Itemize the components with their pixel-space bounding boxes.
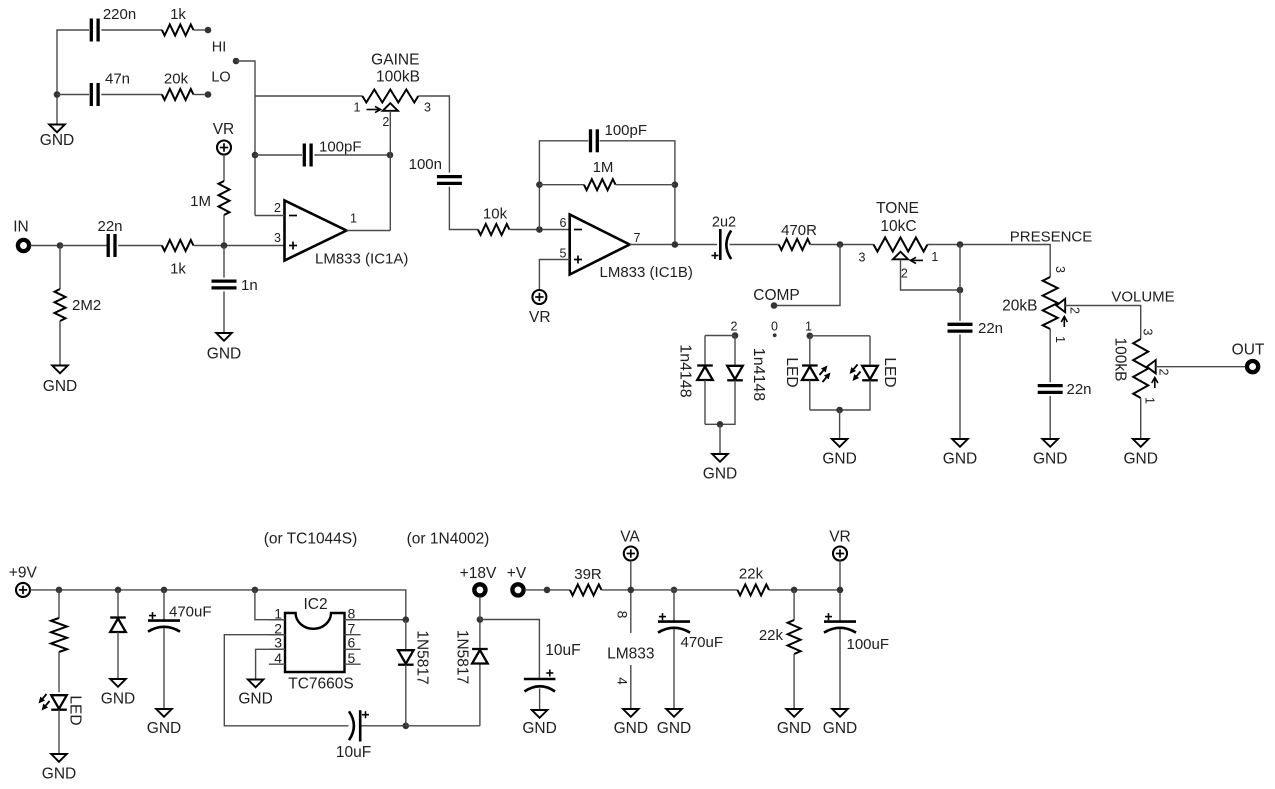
pin 2: [1157, 369, 1171, 376]
pin 3: [1053, 266, 1067, 273]
wire: [1049, 329, 1051, 382]
svg-text:10k: 10k: [483, 206, 508, 223]
pin 3: [1141, 329, 1155, 336]
svg-text:5: 5: [348, 650, 356, 666]
svg-text:1k: 1k: [170, 261, 186, 278]
label 20kB: [1002, 298, 1037, 315]
pin 8: [615, 611, 631, 619]
svg-text:IN: IN: [13, 219, 29, 236]
wire: [839, 410, 841, 439]
wire: [101, 94, 162, 96]
label LED: [881, 357, 898, 387]
wiper TONE: [893, 252, 923, 264]
ground: [1033, 439, 1067, 468]
wire: [959, 335, 961, 439]
label 100kB: [1112, 338, 1129, 382]
svg-text:470uF: 470uF: [681, 634, 724, 651]
wire: [58, 590, 60, 618]
potentiometer GAINE 100kB: [362, 90, 418, 103]
wire: [255, 154, 302, 156]
capacitor 22n: [948, 320, 1004, 337]
junction: [403, 616, 410, 623]
wire: [223, 246, 225, 278]
svg-text:GND: GND: [42, 766, 76, 783]
svg-text:4: 4: [274, 650, 282, 666]
svg-text:5: 5: [560, 247, 567, 261]
svg-text:+9V: +9V: [9, 565, 38, 582]
svg-text:2: 2: [1157, 369, 1171, 376]
svg-text:VOLUME: VOLUME: [1111, 289, 1174, 306]
diode reverse protection: [110, 618, 126, 633]
op-amp U1 LM833 IC1B: [560, 215, 693, 282]
wire: [480, 620, 540, 680]
resistor 470R: [779, 222, 817, 250]
ground: [238, 680, 272, 708]
capacitor 100uF: [824, 613, 889, 653]
wire: [389, 111, 391, 231]
label OUT: [1232, 342, 1265, 359]
wire: [314, 154, 390, 156]
wire: [769, 589, 840, 591]
wire pin 2: [224, 635, 348, 726]
wire: [839, 629, 841, 709]
wire: [255, 95, 362, 97]
junction: [717, 421, 724, 428]
junction: [54, 91, 61, 98]
svg-text:3: 3: [274, 635, 282, 651]
label VR: [829, 529, 851, 546]
svg-text:IC2: IC2: [303, 596, 327, 613]
pin 4: [615, 677, 631, 685]
svg-text:20k: 20k: [164, 71, 189, 88]
pin 1: [1053, 336, 1067, 343]
wire: [223, 215, 225, 246]
svg-text:1n: 1n: [241, 277, 258, 294]
ground: [1123, 439, 1157, 468]
svg-text:GND: GND: [207, 346, 241, 363]
wire: [30, 245, 60, 247]
wire: [101, 29, 162, 31]
svg-text:2: 2: [901, 267, 908, 281]
svg-text:GND: GND: [43, 378, 77, 395]
terminal VR: [217, 141, 231, 155]
label +V: [507, 565, 527, 582]
svg-text:GND: GND: [101, 691, 135, 708]
svg-text:HI: HI: [212, 40, 227, 56]
wire: [236, 61, 255, 216]
svg-text:+18V: +18V: [460, 565, 497, 582]
wire: [163, 590, 165, 621]
svg-text:1: 1: [805, 320, 812, 334]
capacitor 2u2: [712, 215, 737, 261]
wire: [118, 245, 162, 247]
svg-text:LM833 (IC1B): LM833 (IC1B): [600, 264, 693, 281]
pin 6: [348, 635, 356, 651]
wire: [809, 336, 811, 365]
diode 1N5817: [472, 649, 488, 664]
resistor 1M: [584, 159, 616, 190]
capacitor 470uF: [148, 604, 212, 632]
svg-text:1n4148: 1n4148: [677, 344, 694, 397]
jack +18V: [474, 584, 485, 595]
label 2: [731, 320, 738, 334]
svg-text:GND: GND: [238, 691, 272, 708]
wire pin5: [539, 260, 569, 291]
node COMP: [771, 302, 778, 309]
svg-text:100pF: 100pF: [605, 122, 648, 139]
wire: [194, 94, 209, 96]
svg-text:22n: 22n: [978, 320, 1003, 337]
wire: [479, 664, 481, 726]
label VR: [529, 309, 551, 326]
wire: [616, 184, 675, 186]
wire: [58, 652, 60, 692]
node diode select 1: [807, 333, 814, 340]
wire: [194, 245, 285, 247]
diode D1 1n4148: [697, 366, 713, 381]
svg-text:22n: 22n: [1067, 381, 1092, 398]
resistor 10k: [478, 206, 510, 236]
svg-text:470uF: 470uF: [169, 604, 212, 621]
diode 1N5817: [398, 650, 414, 665]
wire: [1049, 396, 1051, 439]
svg-text:VR: VR: [213, 121, 235, 138]
pin 8: [348, 606, 356, 622]
svg-text:22n: 22n: [97, 218, 122, 235]
svg-text:4: 4: [615, 677, 631, 685]
wire: [673, 590, 675, 622]
junction: [836, 407, 843, 414]
svg-text:VR: VR: [529, 309, 551, 326]
wire: [959, 245, 961, 321]
wire pin2: [255, 215, 285, 217]
ground: [40, 125, 74, 150]
node LO terminal: [205, 91, 212, 98]
svg-text:GAINE: GAINE: [371, 52, 419, 69]
svg-text:1: 1: [350, 212, 357, 226]
wire: [539, 184, 584, 186]
LED arrows: [820, 366, 831, 382]
wire: [479, 620, 481, 649]
svg-text:2: 2: [731, 320, 738, 334]
ground: [614, 709, 648, 737]
ground: [101, 679, 135, 708]
wire: [630, 244, 717, 246]
capacitor 47n: [91, 71, 130, 107]
wire: [60, 245, 108, 247]
wire: [810, 335, 870, 337]
capacitor 1n: [212, 277, 258, 294]
LED D4: [862, 366, 878, 381]
svg-text:100kB: 100kB: [1112, 338, 1129, 382]
svg-text:GND: GND: [703, 466, 737, 483]
wire wiper: [901, 259, 961, 290]
svg-text:GND: GND: [823, 720, 857, 737]
label TONE: [876, 200, 919, 217]
wire: [405, 665, 407, 726]
pin 1: [1143, 397, 1157, 404]
label 1N5817: [414, 630, 431, 684]
node IC1A non-inverting input: [221, 242, 228, 249]
wire: [734, 336, 736, 365]
wire: [630, 665, 632, 709]
svg-text:OUT: OUT: [1232, 342, 1265, 359]
svg-text:0: 0: [771, 320, 778, 334]
svg-text:1M: 1M: [593, 159, 614, 176]
svg-text:8: 8: [615, 611, 631, 619]
capacitor 100pF: [591, 122, 648, 152]
svg-text:LM833 (IC1A): LM833 (IC1A): [315, 251, 408, 268]
wire: [58, 710, 60, 754]
svg-text:1: 1: [1053, 336, 1067, 343]
resistor LED: [51, 618, 67, 652]
wire: [705, 335, 735, 337]
label 1n4148: [677, 344, 694, 397]
label LO: [211, 70, 230, 86]
wire: [869, 336, 871, 365]
wire: [602, 589, 659, 591]
svg-text:LM833: LM833: [607, 646, 654, 663]
ground: [207, 333, 241, 363]
svg-text:20kB: 20kB: [1002, 298, 1037, 315]
IC2 pin stubs: [269, 620, 361, 665]
potentiometer TONE 10kC: [874, 238, 928, 252]
jack +V: [512, 584, 523, 595]
terminal VR: [532, 290, 546, 304]
svg-text:GND: GND: [147, 720, 181, 737]
wire: [719, 424, 721, 453]
svg-text:7: 7: [634, 231, 641, 245]
svg-text:100n: 100n: [409, 156, 442, 173]
node IC1B inverting input: [536, 226, 543, 233]
junction: [791, 587, 798, 594]
wire: [57, 94, 89, 96]
capacitor 470uF: [658, 613, 723, 651]
junction: [57, 242, 64, 249]
pin 1: [931, 250, 938, 264]
capacitor 22n: [1038, 381, 1092, 398]
wire: [793, 590, 795, 620]
svg-text:3: 3: [1141, 329, 1155, 336]
wire: [658, 589, 738, 591]
wire: [405, 620, 407, 650]
wire: [223, 291, 225, 332]
capacitor 100pF: [304, 139, 361, 167]
label GAINE: [371, 52, 419, 69]
wire wiper: [1065, 306, 1141, 340]
junction: [837, 241, 844, 248]
label or TC1044S: [264, 531, 358, 548]
svg-text:GND: GND: [943, 451, 977, 468]
wire output IC1A: [347, 230, 391, 232]
wire: [539, 689, 541, 710]
LED D3: [802, 366, 818, 381]
label +18V: [460, 565, 497, 582]
svg-text:LO: LO: [211, 70, 230, 86]
junction: [957, 287, 964, 294]
svg-text:COMP: COMP: [753, 287, 800, 304]
svg-text:GND: GND: [1033, 451, 1067, 468]
svg-text:1: 1: [354, 101, 361, 115]
junction: [115, 587, 122, 594]
junction: [252, 152, 259, 159]
jack OUT: [1247, 361, 1258, 372]
diode D2 1n4148: [727, 366, 743, 381]
wire: [479, 597, 481, 620]
svg-text:2u2: 2u2: [712, 215, 736, 231]
capacitor 10uF: [336, 710, 371, 761]
wire: [223, 155, 225, 182]
junction: [628, 587, 635, 594]
pin 2: [901, 267, 908, 281]
svg-text:2M2: 2M2: [72, 297, 101, 314]
wire: [525, 589, 570, 591]
svg-text:22k: 22k: [739, 566, 764, 583]
label 100kB: [376, 69, 420, 86]
junction: [536, 181, 543, 188]
svg-text:GND: GND: [522, 720, 556, 737]
svg-text:1k: 1k: [170, 6, 186, 23]
LED arrows: [39, 694, 50, 710]
wire: [793, 654, 795, 709]
svg-text:PRESENCE: PRESENCE: [1010, 229, 1093, 246]
pin 3: [424, 101, 431, 115]
node diode select 2: [732, 332, 739, 339]
node switch common: [233, 58, 240, 65]
svg-text:GND: GND: [822, 451, 856, 468]
wire pin 3: [256, 649, 285, 679]
wire: [418, 96, 449, 173]
wire: [362, 725, 406, 727]
label HI: [212, 40, 227, 56]
label 0: [771, 320, 778, 334]
svg-text:1N5817: 1N5817: [454, 630, 471, 684]
svg-text:10kC: 10kC: [880, 218, 916, 235]
label LED: [783, 357, 800, 387]
wire: [449, 187, 478, 230]
wire: [539, 141, 588, 230]
resistor 1k: [162, 240, 194, 278]
ground: [703, 454, 737, 483]
wire: [59, 246, 61, 290]
junction: [161, 587, 168, 594]
svg-text:1n4148: 1n4148: [750, 348, 767, 401]
terminal VA: [624, 547, 638, 561]
ground: [822, 439, 856, 468]
svg-text:TC7660S: TC7660S: [288, 676, 353, 693]
ground: [657, 709, 691, 737]
label +9V: [9, 565, 38, 582]
svg-text:2: 2: [274, 201, 281, 215]
ground: [823, 709, 857, 737]
capacitor 10uF: [524, 642, 581, 692]
svg-text:6: 6: [348, 635, 356, 651]
wire: [600, 141, 675, 245]
ground: [943, 439, 977, 468]
pin 1: [354, 101, 361, 115]
wire: [774, 245, 840, 306]
svg-text:3: 3: [424, 101, 431, 115]
potentiometer PRESENCE 20kB: [1043, 277, 1058, 329]
wire: [673, 629, 675, 709]
svg-text:100uF: 100uF: [847, 636, 890, 653]
label LED: [67, 695, 84, 725]
resistor 22k: [738, 566, 770, 596]
junction: [252, 587, 259, 594]
terminal +9V: [16, 583, 30, 597]
pin 5: [348, 650, 356, 666]
wire: [704, 380, 706, 424]
ground: [522, 710, 556, 737]
LED arrows: [850, 365, 861, 381]
label 1n4148: [750, 348, 767, 401]
svg-text:1: 1: [1143, 397, 1157, 404]
pin 3: [274, 635, 282, 651]
svg-text:47n: 47n: [105, 71, 130, 88]
svg-text:GND: GND: [1123, 451, 1157, 468]
pin 2: [1068, 307, 1082, 314]
wire: [809, 380, 811, 410]
node HI terminal: [205, 27, 212, 34]
junction: [403, 723, 410, 730]
potentiometer VOLUME 100kB: [1133, 339, 1148, 398]
wire: [1140, 398, 1142, 439]
terminal VR: [833, 547, 847, 561]
label VA: [620, 529, 640, 546]
wire: [810, 380, 870, 410]
resistor 1M: [190, 181, 229, 215]
capacitor 100n: [409, 156, 462, 183]
wire: [194, 29, 209, 31]
ground: [42, 754, 76, 783]
wire: [57, 30, 89, 124]
svg-text:10uF: 10uF: [545, 642, 580, 659]
wire pin 8: [345, 619, 406, 621]
resistor 20k: [162, 71, 194, 101]
svg-text:(or 1N4002): (or 1N4002): [407, 531, 490, 548]
junction: [56, 587, 63, 594]
wiper PRESENCE: [1056, 299, 1067, 327]
label or 1N4002: [407, 531, 490, 548]
junction: [544, 587, 551, 594]
wire pin 1: [255, 590, 285, 620]
svg-text:3: 3: [859, 251, 866, 265]
wire: [117, 632, 119, 679]
svg-text:LED: LED: [783, 357, 800, 387]
svg-text:22k: 22k: [759, 627, 784, 644]
wire: [406, 725, 480, 727]
svg-text:1: 1: [931, 250, 938, 264]
svg-text:+V: +V: [507, 565, 527, 582]
wire: [705, 380, 735, 424]
LED power indicator: [51, 695, 67, 710]
svg-text:LED: LED: [67, 695, 84, 725]
junction: [387, 152, 394, 159]
svg-text:3: 3: [1053, 266, 1067, 273]
jack IN: [18, 240, 29, 251]
label VOLUME: [1111, 289, 1174, 306]
wire: [839, 561, 841, 622]
ground: [147, 709, 181, 737]
svg-text:1N5817: 1N5817: [414, 630, 431, 684]
svg-text:(or TC1044S): (or TC1044S): [264, 531, 358, 548]
ground: [777, 709, 811, 737]
wire +9V rail: [30, 590, 406, 620]
label PRESENCE: [1010, 229, 1093, 246]
svg-text:1M: 1M: [190, 193, 211, 210]
IC U2 TC7660S body: [285, 596, 354, 693]
svg-text:10uF: 10uF: [336, 744, 371, 761]
